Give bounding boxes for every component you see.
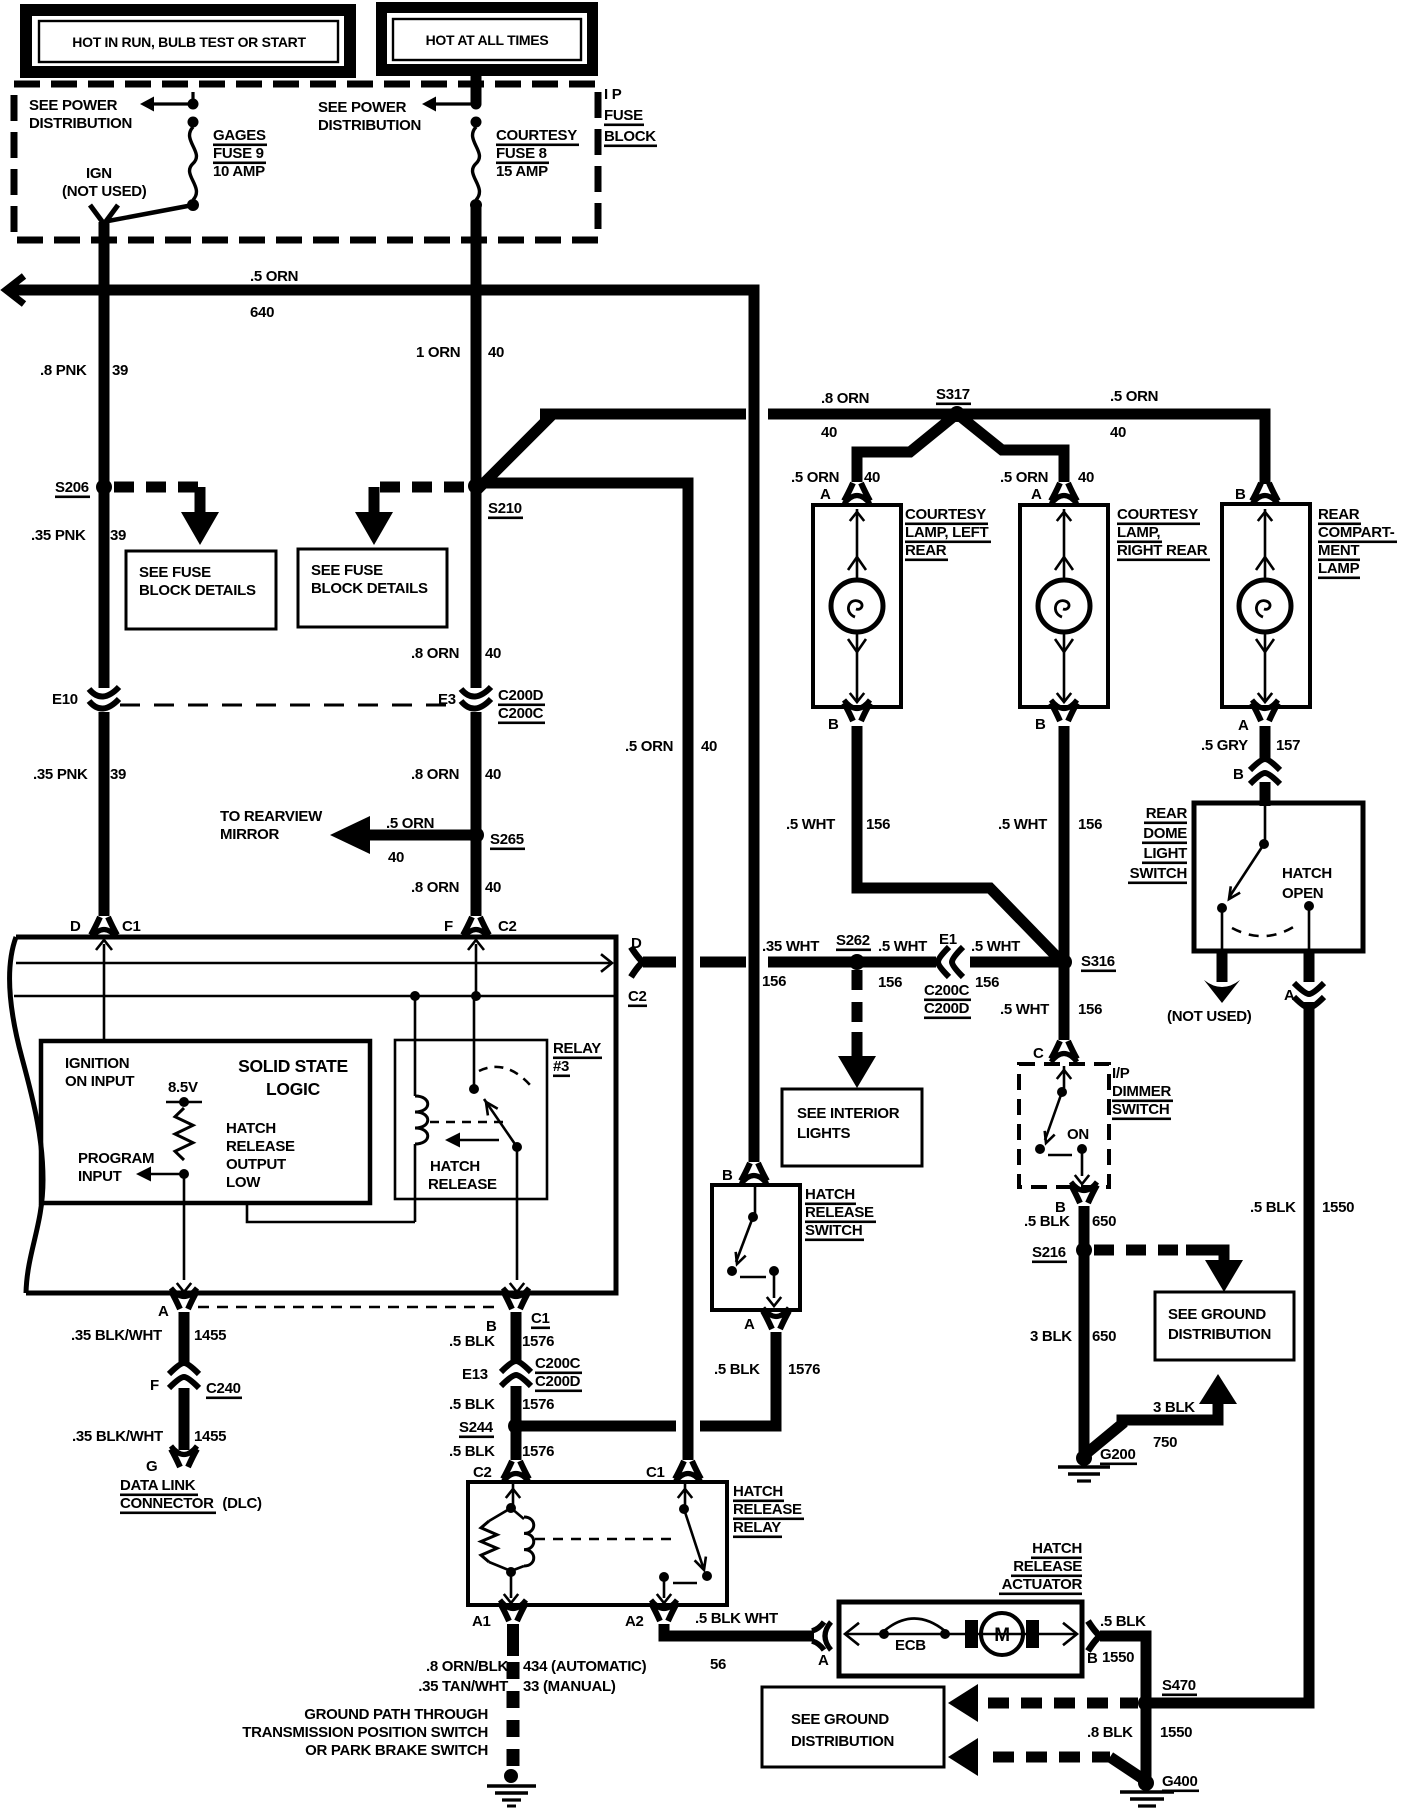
module internal riser to pin F/C2 [468, 940, 484, 996]
dashed connector face line A to C1 [198, 1306, 498, 1309]
svg-text:SWITCH: SWITCH [805, 1222, 862, 1239]
labels .8 ORN 40 / S317 / .5 ORN 40 [821, 386, 1158, 441]
wire: lamp left B .5 WHT 156 down, over and diagonal to S316 [857, 726, 1058, 958]
wire: S317 run corner down to rear compartment lamp B [1248, 414, 1265, 484]
svg-text:I P: I P [604, 86, 622, 103]
svg-text:COURTESY: COURTESY [496, 127, 577, 144]
svg-text:E1: E1 [939, 931, 957, 948]
box SEE INTERIOR LIGHTS [782, 1089, 922, 1166]
relay #3 fixed contact riser [469, 996, 479, 1094]
wire: A2 to actuator pin A .5 BLK WHT 56 [664, 1624, 814, 1636]
svg-text:B: B [722, 1167, 733, 1184]
connector C1 into relay [646, 1461, 701, 1482]
program input arrow [78, 1150, 184, 1185]
svg-text:FUSE: FUSE [604, 107, 643, 124]
svg-text:C200D: C200D [535, 1373, 581, 1390]
I/P fuse block dashed enclosure [14, 84, 598, 240]
svg-text:.5 WHT: .5 WHT [998, 816, 1047, 833]
svg-text:1576: 1576 [522, 1333, 554, 1350]
svg-text:15 AMP: 15 AMP [496, 163, 548, 180]
svg-text:39: 39 [112, 362, 128, 379]
wire: .5 BLK 1576 module C1 to E13 [511, 1312, 522, 1360]
label .5 BLK 1576 (switch leg) [714, 1361, 820, 1378]
node dots at fuse 8 top [471, 99, 482, 128]
label HATCH RELEASE OUTPUT LOW [226, 1120, 295, 1191]
svg-text:.5 ORN: .5 ORN [386, 815, 434, 832]
svg-text:LIGHT: LIGHT [1144, 845, 1188, 862]
svg-text:.5 ORN: .5 ORN [1000, 469, 1048, 486]
node dot at fuse 9 bottom [187, 199, 199, 211]
connector F/C2 into module [444, 917, 517, 938]
wire: S244 horizontal run [521, 1421, 676, 1432]
svg-text:40: 40 [485, 879, 501, 896]
svg-text:.5 WHT: .5 WHT [1000, 1001, 1049, 1018]
svg-text:S244: S244 [459, 1419, 494, 1436]
svg-text:BLOCK: BLOCK [604, 128, 656, 145]
svg-text:.5 ORN: .5 ORN [625, 738, 673, 755]
svg-text:.5 ORN: .5 ORN [250, 268, 298, 285]
svg-text:C1: C1 [531, 1310, 550, 1327]
svg-text:650: 650 [1092, 1213, 1116, 1230]
label I/P FUSE BLOCK [604, 86, 657, 147]
label HATCH RELEASE SWITCH [805, 1186, 876, 1241]
svg-text:BLOCK DETAILS: BLOCK DETAILS [311, 580, 428, 597]
svg-text:.8 ORN/BLK: .8 ORN/BLK [426, 1658, 508, 1675]
svg-text:C200C: C200C [535, 1355, 581, 1372]
node dot at fuse 8 bottom [470, 199, 482, 211]
svg-text:C200D: C200D [498, 687, 544, 704]
svg-text:DIMMER: DIMMER [1112, 1083, 1171, 1100]
module internal riser to pin D/C1 [96, 940, 112, 1041]
ground at transmission switch [487, 1769, 536, 1806]
svg-text:ECB: ECB [895, 1637, 926, 1654]
svg-text:.5 BLK: .5 BLK [714, 1361, 760, 1378]
svg-text:S265: S265 [490, 831, 524, 848]
svg-text:C200C: C200C [924, 982, 970, 999]
IGN (NOT USED) connector [62, 165, 147, 224]
connector A at courtesy lamp right [1051, 483, 1077, 504]
splice S316 [1056, 953, 1116, 972]
svg-text:.5 WHT: .5 WHT [878, 938, 927, 955]
dashed branch S216 to ground distribution arrow [1094, 1250, 1243, 1292]
wire: dome switch right output to A connector [1304, 951, 1315, 982]
svg-text:40: 40 [485, 645, 501, 662]
relay contact riser and arm [657, 1484, 712, 1603]
svg-text:DISTRIBUTION: DISTRIBUTION [791, 1733, 894, 1750]
box SEE GROUND DISTRIBUTION (bottom) [762, 1687, 944, 1767]
svg-text:G400: G400 [1162, 1773, 1198, 1790]
ground G400 [1120, 1773, 1199, 1806]
svg-text:I/P: I/P [1112, 1065, 1130, 1082]
ground G200 [1058, 1446, 1137, 1481]
svg-text:OPEN: OPEN [1282, 885, 1323, 902]
hatch release switch box [712, 1185, 800, 1310]
wire: lamp right B .5 WHT 156 down to S316 [1059, 726, 1070, 958]
svg-text:ON INPUT: ON INPUT [65, 1073, 134, 1090]
connector C at I/P dimmer switch [1033, 1041, 1077, 1062]
svg-text:C1: C1 [646, 1464, 665, 1481]
svg-text:1455: 1455 [194, 1428, 226, 1445]
svg-text:RELEASE: RELEASE [1013, 1558, 1082, 1575]
svg-text:B: B [1035, 716, 1046, 733]
relay #3 movable arm [484, 1099, 522, 1152]
connector B at hatch release switch [722, 1163, 767, 1184]
svg-text:650: 650 [1092, 1328, 1116, 1345]
hatch release switch contacts and arm [727, 1187, 781, 1306]
relay #3 box inside module [395, 1040, 602, 1199]
svg-text:G200: G200 [1100, 1446, 1136, 1463]
connector B at dimmer switch [1055, 1182, 1097, 1216]
connector B under lamp left [828, 700, 870, 733]
svg-text:COMPART-: COMPART- [1318, 524, 1395, 541]
connector C1 under module (pin B) [486, 1288, 550, 1335]
label .5 GRY 157 [1201, 737, 1300, 754]
svg-text:SEE POWER: SEE POWER [29, 97, 118, 114]
svg-text:40: 40 [388, 849, 404, 866]
label .35 BLK/WHT 1455 (upper) [71, 1327, 226, 1344]
svg-text:MENT: MENT [1318, 542, 1359, 559]
body control module outline with torn left edge [10, 937, 616, 1293]
svg-text:39: 39 [110, 766, 126, 783]
svg-text:.35 WHT: .35 WHT [762, 938, 819, 955]
label .5 ORN 40 (lamp right feed) and pin A [1000, 469, 1094, 503]
power banner: HOT AT ALL TIMES [376, 2, 598, 76]
svg-text:156: 156 [975, 974, 999, 991]
labels .5 BLK WHT 56 [695, 1610, 778, 1673]
svg-text:1455: 1455 [194, 1327, 226, 1344]
label I/P DIMMER SWITCH [1112, 1065, 1173, 1120]
dashed branch G400 to ground distribution triangle [948, 1738, 1143, 1779]
svg-text:OR PARK BRAKE SWITCH: OR PARK BRAKE SWITCH [305, 1742, 488, 1759]
svg-text:434 (AUTOMATIC): 434 (AUTOMATIC) [523, 1658, 647, 1675]
svg-text:39: 39 [110, 527, 126, 544]
relay coil branch with resistor [481, 1484, 534, 1603]
svg-text:B: B [1087, 1650, 1098, 1667]
wire: .8 PNK 39 from IGN down to S206 and on to module C1 pin D [99, 222, 110, 916]
svg-text:(NOT USED): (NOT USED) [1167, 1008, 1252, 1025]
wire: S210 diagonal up to S317 horizontal run [477, 414, 1259, 490]
svg-text:S470: S470 [1162, 1677, 1196, 1694]
label REAR DOME LIGHT SWITCH [1128, 805, 1187, 884]
connector A2 under relay [625, 1600, 677, 1630]
connector C2 into hatch release relay [473, 1461, 529, 1482]
svg-text:A1: A1 [472, 1613, 491, 1630]
svg-text:157: 157 [1276, 737, 1300, 754]
svg-text:.5 BLK: .5 BLK [1250, 1199, 1296, 1216]
svg-text:.8 ORN: .8 ORN [821, 390, 869, 407]
svg-text:3 BLK: 3 BLK [1030, 1328, 1072, 1345]
courtesy lamp right rear [1020, 505, 1210, 707]
relay #3 coil on riser from bus 2 [415, 996, 428, 1222]
svg-text:REAR: REAR [1318, 506, 1360, 523]
svg-text:.5 BLK: .5 BLK [449, 1443, 495, 1460]
svg-text:SOLID STATE: SOLID STATE [238, 1056, 348, 1076]
svg-text:A: A [158, 1303, 169, 1320]
connector B at rear compartment lamp [1235, 483, 1278, 504]
svg-text:GROUND PATH THROUGH: GROUND PATH THROUGH [304, 1706, 488, 1723]
svg-text:CONNECTOR: CONNECTOR [120, 1495, 214, 1512]
dome switch contacts and arm [1217, 806, 1314, 951]
svg-text:D: D [70, 918, 81, 935]
label .35 PNK 39 (lower) [33, 766, 126, 783]
svg-text:SEE GROUND: SEE GROUND [1168, 1306, 1266, 1323]
rear compartment lamp [1222, 504, 1397, 707]
svg-text:HATCH: HATCH [1282, 865, 1332, 882]
svg-text:RIGHT REAR: RIGHT REAR [1117, 542, 1208, 559]
connector C240 [150, 1363, 242, 1399]
svg-text:DOME: DOME [1143, 825, 1187, 842]
internal pull-up resistor [175, 1108, 193, 1160]
svg-text:E10: E10 [52, 691, 78, 708]
svg-text:C2: C2 [628, 988, 647, 1005]
8.5V internal supply node [166, 1079, 202, 1107]
svg-text:A: A [1238, 717, 1249, 734]
inline connector B on .5 GRY [1233, 759, 1280, 784]
connector A on .5 BLK 1550 [1284, 983, 1324, 1008]
solid state logic box [41, 1041, 370, 1203]
hatch release relay box [468, 1482, 727, 1605]
svg-text:LIGHTS: LIGHTS [797, 1125, 850, 1142]
wire: S316 down to I/P dimmer switch C [1059, 968, 1070, 1040]
node dots at fuse 9 top [188, 99, 199, 128]
svg-text:SWITCH: SWITCH [1112, 1101, 1169, 1118]
label 3 BLK 650 [1030, 1328, 1116, 1345]
svg-text:SEE FUSE: SEE FUSE [311, 562, 383, 579]
svg-text:C2: C2 [473, 1464, 492, 1481]
svg-text:C2: C2 [498, 918, 517, 935]
module internal bus line 2 [14, 995, 616, 998]
label 1 ORN 40 [416, 344, 504, 361]
svg-text:156: 156 [878, 974, 902, 991]
dashed branch S206 to fuse block details arrow [114, 487, 219, 545]
wire: .35 BLK/WHT 1455 to C240 [179, 1312, 190, 1362]
label .35 PNK 39 (upper) [31, 527, 126, 544]
svg-text:S317: S317 [936, 386, 970, 403]
svg-text:.5 ORN: .5 ORN [791, 469, 839, 486]
connector at actuator pin B [1087, 1621, 1100, 1667]
connector E3 C200D/C200C [438, 687, 545, 724]
svg-text:GAGES: GAGES [213, 127, 266, 144]
svg-text:40: 40 [488, 344, 504, 361]
svg-text:3 BLK: 3 BLK [1153, 1399, 1195, 1416]
svg-text:S206: S206 [55, 479, 89, 496]
wire: A1 down to transmission ground path (dashed) [507, 1624, 519, 1768]
svg-text:SEE GROUND: SEE GROUND [791, 1711, 889, 1728]
svg-text:156: 156 [866, 816, 890, 833]
svg-text:F: F [150, 1377, 159, 1394]
label .8 BLK 1550 [1087, 1724, 1192, 1741]
box SEE FUSE BLOCK DETAILS (right) [298, 549, 447, 627]
label ground path through transmission position switch [242, 1706, 488, 1759]
connector G data link connector [146, 1446, 197, 1475]
svg-text:OUTPUT: OUTPUT [226, 1156, 286, 1173]
splice S244 [459, 1418, 524, 1438]
see power distribution arrow (right) [318, 97, 476, 135]
svg-text:HATCH: HATCH [430, 1158, 480, 1175]
svg-text:HOT IN RUN, BULB TEST OR START: HOT IN RUN, BULB TEST OR START [72, 34, 306, 50]
svg-text:A: A [818, 1652, 829, 1669]
svg-text:HATCH: HATCH [733, 1483, 783, 1500]
fuse F8 COURTESY 15 AMP [473, 127, 579, 200]
svg-text:BLOCK DETAILS: BLOCK DETAILS [139, 582, 256, 599]
label .5 BLK 1550 [1250, 1199, 1354, 1216]
connector D/C2 out of module [628, 935, 647, 1007]
connector A under rear compartment lamp [1238, 700, 1278, 734]
wire: dome switch left output (not used) arrow [1204, 951, 1240, 1003]
svg-text:SEE POWER: SEE POWER [318, 99, 407, 116]
svg-text:SEE FUSE: SEE FUSE [139, 564, 211, 581]
svg-text:.5 WHT: .5 WHT [786, 816, 835, 833]
label SOLID STATE LOGIC [238, 1056, 348, 1099]
label .5 WHT 156 (left) [786, 816, 890, 833]
svg-text:156: 156 [1078, 816, 1102, 833]
wire: fuse 9 to IGN splice [108, 205, 193, 221]
power banner: HOT IN RUN, BULB TEST OR START [20, 4, 356, 78]
label .8 ORN 40 (below E3) [411, 766, 501, 783]
hatch release actuator box [839, 1602, 1082, 1676]
labels .35 WHT / S262 / 156 [762, 932, 871, 990]
svg-text:DISTRIBUTION: DISTRIBUTION [318, 117, 421, 134]
svg-text:INPUT: INPUT [78, 1168, 122, 1185]
svg-text:SWITCH: SWITCH [1130, 865, 1187, 882]
svg-text:S210: S210 [488, 500, 522, 517]
svg-text:56: 56 [710, 1656, 726, 1673]
svg-text:1550: 1550 [1160, 1724, 1192, 1741]
label .8 ORN 40 (below S265) [411, 879, 501, 896]
actuator internals: ECB and motor M [845, 1613, 1077, 1655]
svg-text:REAR: REAR [905, 542, 947, 559]
svg-text:IGNITION: IGNITION [65, 1055, 129, 1072]
svg-text:IGN: IGN [86, 165, 112, 182]
svg-text:40: 40 [701, 738, 717, 755]
svg-text:E13: E13 [462, 1366, 488, 1383]
svg-text:1576: 1576 [788, 1361, 820, 1378]
splice S317 [949, 406, 965, 422]
courtesy lamp left rear [813, 505, 991, 707]
label (NOT USED) [1167, 1008, 1252, 1025]
svg-text:C: C [1033, 1045, 1044, 1062]
wire: S317 to courtesy lamp left rear pin A [857, 417, 953, 482]
box SEE GROUND DISTRIBUTION (right) [1155, 1292, 1294, 1360]
svg-text:.35 BLK/WHT: .35 BLK/WHT [72, 1428, 163, 1445]
label .5 ORN 40 (long riser) [625, 738, 717, 755]
svg-text:1576: 1576 [522, 1443, 554, 1460]
wire: hot feed stub into fuse 9 node [191, 92, 194, 104]
dashed branch S210 to fuse block details arrow [355, 487, 466, 545]
svg-text:(DLC): (DLC) [222, 1495, 262, 1512]
program input node dot [179, 1169, 189, 1179]
wire: switch A .5 BLK 1576 down and left to S244 [700, 1332, 776, 1426]
label .8 PNK 39 [40, 362, 128, 379]
svg-text:A2: A2 [625, 1613, 644, 1630]
svg-text:S262: S262 [836, 932, 870, 949]
svg-text:F: F [444, 918, 453, 935]
connector A1 under relay [472, 1600, 526, 1630]
wire: relay #3 contact down to module pin C1 [510, 1147, 524, 1292]
wire: S210 right then down to hatch release relay C1 [481, 483, 688, 1460]
svg-text:HOT AT ALL TIMES: HOT AT ALL TIMES [426, 32, 549, 48]
svg-text:HATCH: HATCH [226, 1120, 276, 1137]
wire: .35 WHT 156 run D to S316 (gapped at crossings) [643, 957, 1058, 968]
svg-text:COURTESY: COURTESY [905, 506, 986, 523]
labels .8 ORN/BLK 434 automatic / .35 TAN/WHT 33 manual [418, 1658, 646, 1695]
relay coil-contact dashed link [535, 1538, 672, 1541]
svg-text:S216: S216 [1032, 1244, 1066, 1261]
svg-text:#3: #3 [553, 1058, 569, 1075]
svg-text:MIRROR: MIRROR [220, 826, 279, 843]
svg-text:SEE INTERIOR: SEE INTERIOR [797, 1105, 900, 1122]
svg-text:A: A [820, 486, 831, 503]
connector E10 on C200 [52, 687, 119, 709]
svg-text:.8 ORN: .8 ORN [411, 645, 459, 662]
box SEE FUSE BLOCK DETAILS (left) [126, 551, 276, 629]
svg-text:33 (MANUAL): 33 (MANUAL) [523, 1678, 616, 1695]
wire: G200 up to ground distribution triangle 3 BLK 750 [1087, 1374, 1237, 1453]
label .5 BLK 1576 (2) [449, 1396, 554, 1413]
svg-text:156: 156 [762, 973, 786, 990]
svg-text:40: 40 [1110, 424, 1126, 441]
svg-text:40: 40 [1078, 469, 1094, 486]
wire: rear compartment lamp A .5 GRY 157 down to dome switch [1260, 726, 1271, 806]
label 3 BLK 750 [1153, 1399, 1195, 1451]
wire: 1 ORN 40 fuse 8 down to S210, S265, module C2 pin F [471, 205, 482, 916]
svg-text:ACTUATOR: ACTUATOR [1002, 1576, 1083, 1593]
svg-text:.5 BLK WHT: .5 BLK WHT [695, 1610, 778, 1627]
svg-text:B: B [828, 716, 839, 733]
svg-text:.8 ORN: .8 ORN [411, 879, 459, 896]
svg-text:1576: 1576 [522, 1396, 554, 1413]
wire: E13 down through S244 to relay C2 [511, 1386, 522, 1460]
svg-text:.8 PNK: .8 PNK [40, 362, 87, 379]
svg-text:RELAY: RELAY [733, 1519, 781, 1536]
splice S206 [55, 479, 112, 498]
label .5 WHT 156 (right) [998, 816, 1102, 833]
svg-text:RELEASE: RELEASE [733, 1501, 802, 1518]
svg-text:10 AMP: 10 AMP [213, 163, 265, 180]
svg-text:DATA LINK: DATA LINK [120, 1477, 196, 1494]
svg-text:E3: E3 [438, 691, 456, 708]
label .5 BLK 1576 (3) [449, 1443, 554, 1460]
svg-text:DISTRIBUTION: DISTRIBUTION [29, 115, 132, 132]
svg-text:LAMP, LEFT: LAMP, LEFT [905, 524, 989, 541]
svg-text:40: 40 [485, 766, 501, 783]
svg-text:.5 ORN: .5 ORN [1110, 388, 1158, 405]
I/P dimmer switch dashed box [1019, 1064, 1109, 1187]
relay #3 coil-to-arm dashed link [430, 1121, 505, 1124]
svg-text:A: A [744, 1316, 755, 1333]
svg-text:G: G [146, 1458, 157, 1475]
splice S216 [1032, 1242, 1092, 1263]
splice S470 [1138, 1677, 1197, 1711]
label .8 ORN 40 (above E3) [411, 645, 501, 662]
label .5 ORN 640 [250, 268, 298, 321]
svg-text:.35 PNK: .35 PNK [33, 766, 88, 783]
svg-text:.5 BLK: .5 BLK [449, 1333, 495, 1350]
wire: .5 BLK 1550 long run down to S470 [1152, 1002, 1309, 1703]
svg-text:B: B [1235, 486, 1246, 503]
svg-text:FUSE 9: FUSE 9 [213, 145, 264, 162]
svg-text:FUSE 8: FUSE 8 [496, 145, 547, 162]
svg-text:156: 156 [1078, 1001, 1102, 1018]
svg-text:DISTRIBUTION: DISTRIBUTION [1168, 1326, 1271, 1343]
svg-text:C200D: C200D [924, 1000, 970, 1017]
connector D/C1 into module [70, 917, 141, 938]
svg-text:.5 WHT: .5 WHT [971, 938, 1020, 955]
wire: HOT AT ALL TIMES to fuse 8 [471, 74, 482, 104]
svg-text:ON: ON [1067, 1126, 1089, 1143]
svg-text:LAMP: LAMP [1318, 560, 1360, 577]
svg-text:1 ORN: 1 ORN [416, 344, 460, 361]
